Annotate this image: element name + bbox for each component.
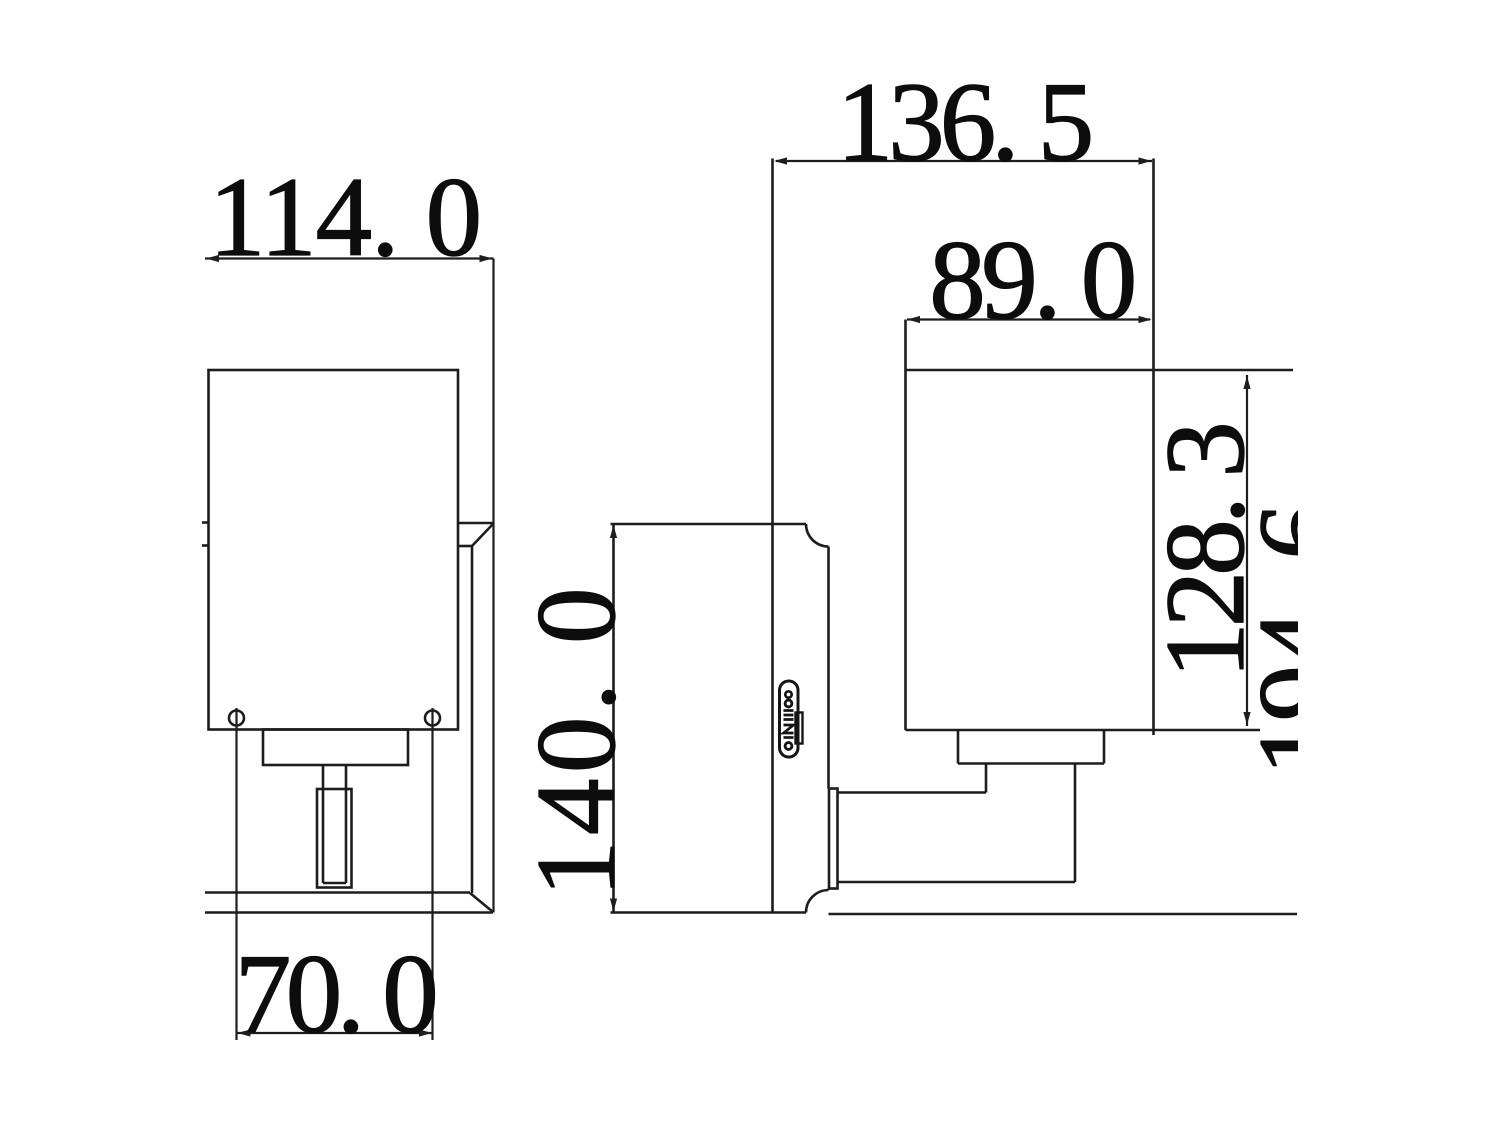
svg-text:136. 5: 136. 5 xyxy=(837,60,1091,185)
svg-text:70. 0: 70. 0 xyxy=(235,932,436,1057)
svg-text:89. 0: 89. 0 xyxy=(929,218,1134,343)
svg-text:140. 0: 140. 0 xyxy=(514,582,639,897)
svg-text:114. 0: 114. 0 xyxy=(209,155,481,280)
